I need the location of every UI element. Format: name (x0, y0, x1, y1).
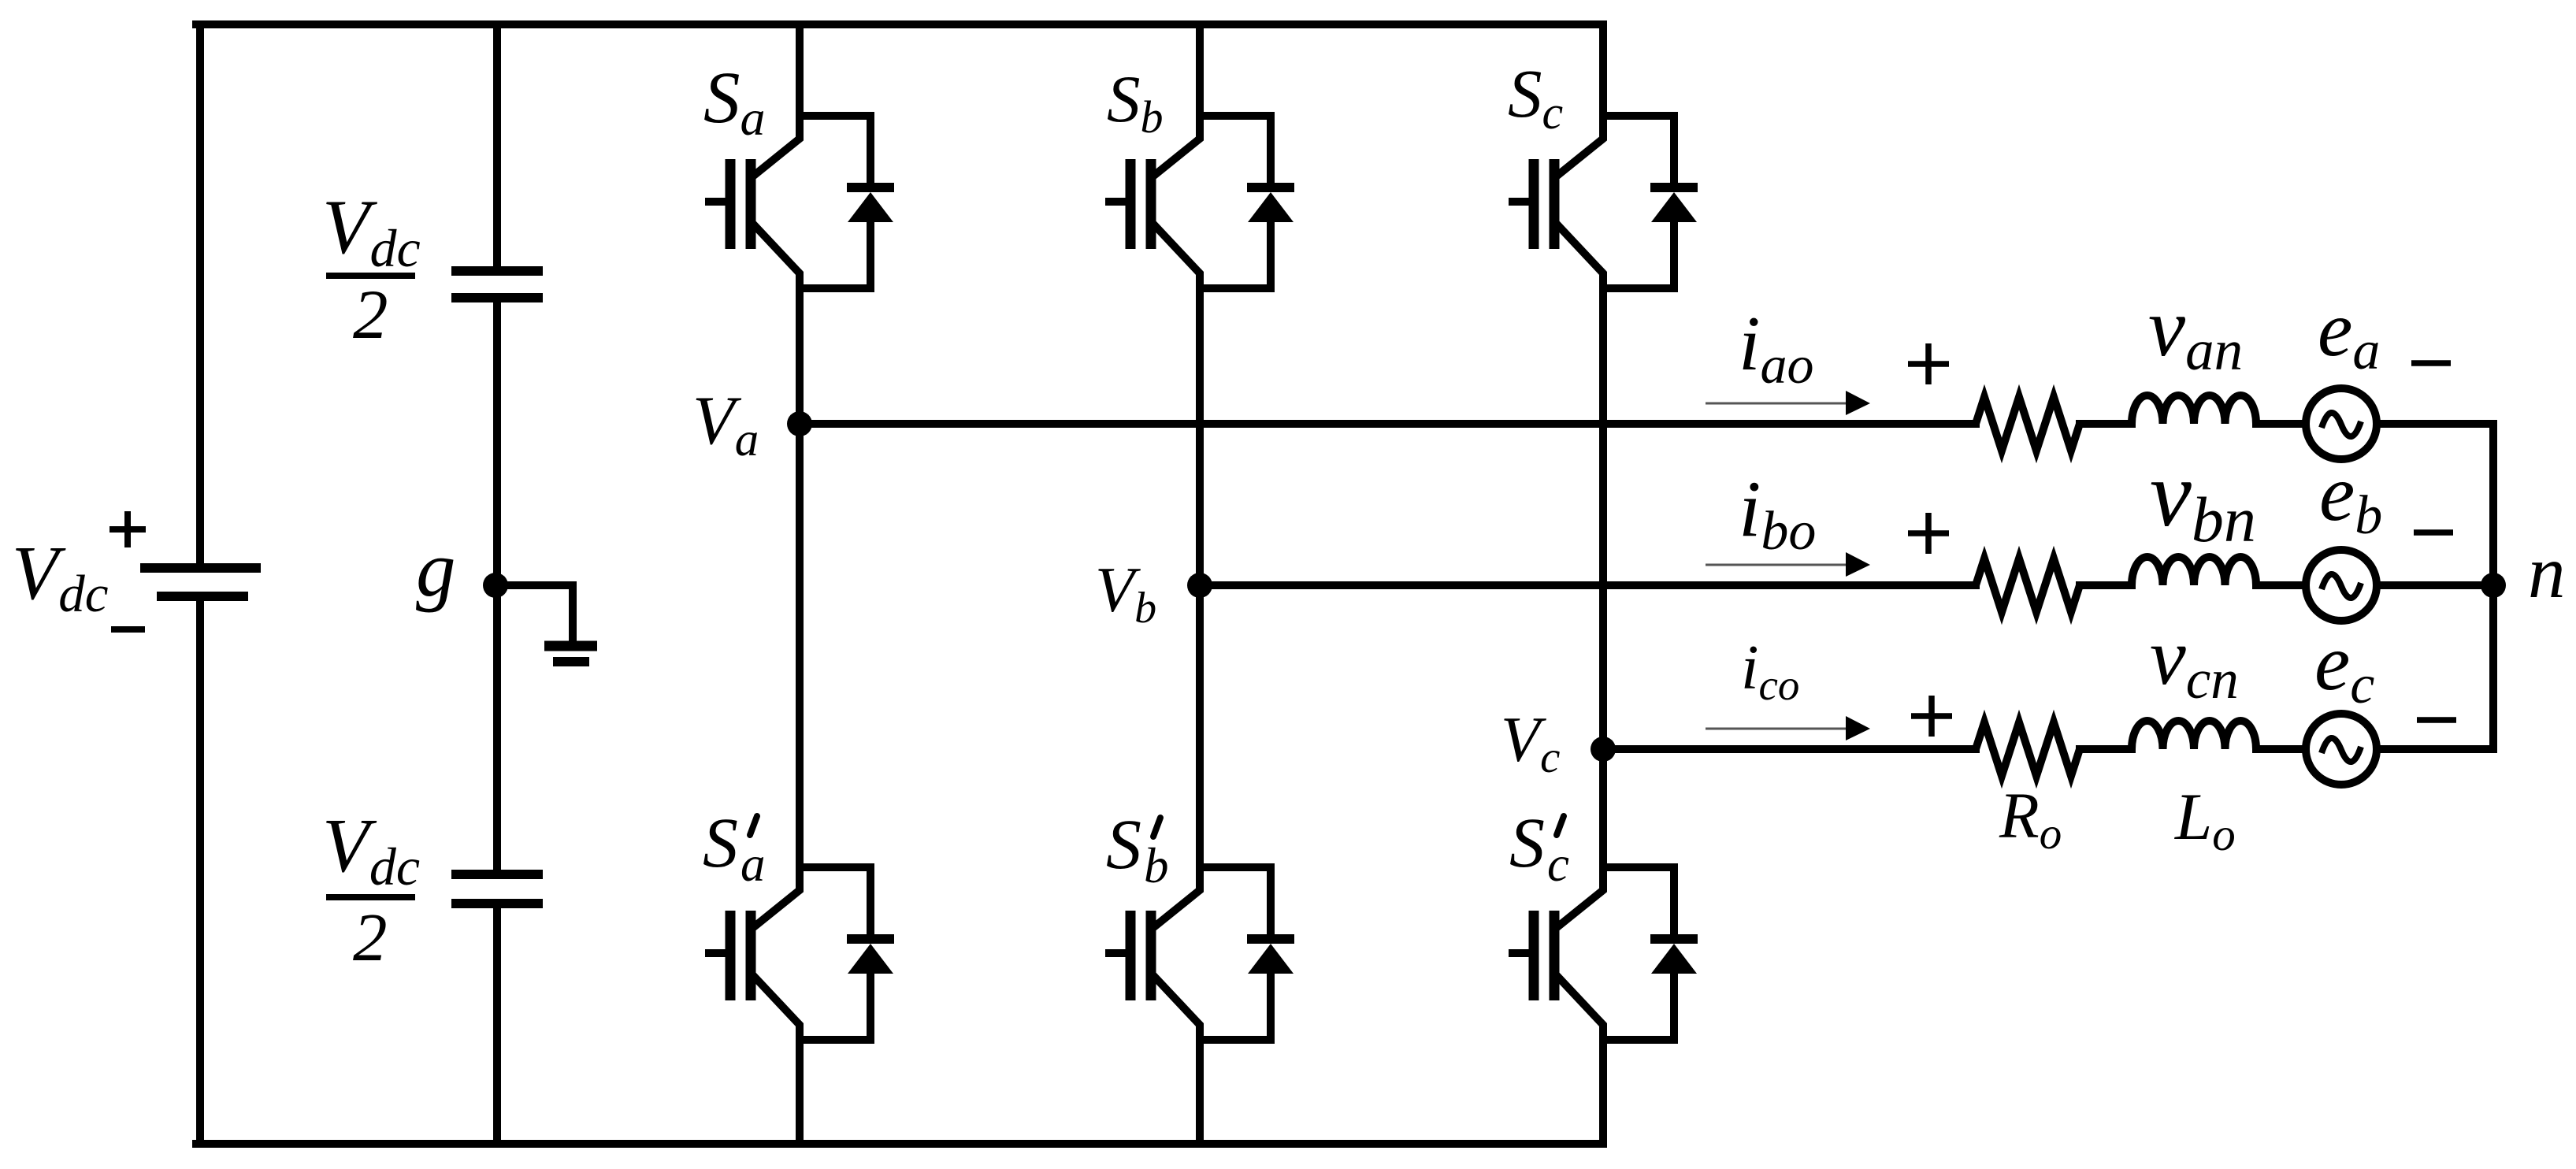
wire phase c output (1603, 745, 1976, 753)
node Vc (1591, 737, 1616, 762)
wire emitter horizontal Sb (1200, 284, 1271, 292)
wire emitter horizontal Sa (800, 284, 870, 292)
wire collector horizontal S'a (800, 863, 870, 871)
wire left rail upper (196, 24, 204, 563)
wire inductor-source a (2256, 420, 2306, 428)
source ea (2306, 388, 2377, 459)
wire leg a bottom (796, 1040, 804, 1144)
current arrow ico (1706, 716, 1870, 740)
wire bottom rail (196, 1140, 1603, 1148)
diode Da (847, 116, 894, 288)
wire emitter horizontal Sc (1603, 284, 1674, 292)
wire source-rail b (2377, 581, 2493, 589)
inductor Lo phase a (2132, 395, 2256, 424)
wire leg a lower (796, 424, 804, 867)
wire leg c lower (1599, 749, 1607, 867)
wire top rail (196, 20, 1603, 28)
diode Dc (1650, 116, 1698, 288)
wire left rail lower (196, 601, 204, 1144)
minus terminal battery (111, 626, 145, 633)
wire right rail (2377, 424, 2493, 749)
wire capacitor rail middle (493, 302, 501, 870)
wire source-rail c (2377, 745, 2493, 753)
minus sign phase a (2411, 360, 2451, 366)
ground (496, 585, 597, 662)
wire leg c top (1599, 24, 1607, 116)
resistor Ro phase b (1976, 559, 2080, 612)
current arrow ibo (1706, 552, 1870, 577)
plus sign phase c (1911, 696, 1952, 737)
wire resistor-inductor c (2080, 745, 2132, 753)
transistor Sb (1105, 112, 1200, 288)
wire emitter horizontal S'a (800, 1036, 870, 1044)
fraction bar upper (326, 273, 415, 279)
diode D'a (847, 867, 894, 1040)
plus terminal battery (109, 511, 146, 547)
transistor S'c (1509, 863, 1603, 1040)
label S'b (1106, 806, 1169, 893)
diode Db (1247, 116, 1294, 288)
transistor Sa (705, 112, 800, 288)
transistor S'b (1105, 863, 1200, 1040)
minus sign phase b (2414, 529, 2453, 536)
current arrow iao (1706, 391, 1870, 415)
wire leg c middle (1599, 288, 1607, 749)
wire leg b top (1196, 24, 1204, 116)
svg-text:n: n (2528, 530, 2566, 614)
wire collector horizontal Sc (1603, 112, 1674, 120)
wire leg b bottom (1196, 1040, 1204, 1144)
wire phase a output (800, 420, 1976, 428)
wire leg b middle (1196, 288, 1204, 585)
transistor S'a (705, 863, 800, 1040)
wire inductor-source c (2256, 745, 2306, 753)
node g (483, 573, 508, 598)
fraction bar lower (326, 894, 415, 900)
wire source-rail a (2377, 420, 2493, 428)
inductor Lo phase b (2132, 557, 2256, 585)
wire inductor-source b (2256, 581, 2306, 589)
wire emitter horizontal S'c (1603, 1036, 1674, 1044)
wire phase b output (1200, 581, 1976, 589)
source eb (2306, 550, 2377, 621)
inductor Lo phase c (2132, 721, 2256, 749)
wire emitter horizontal S'b (1200, 1036, 1271, 1044)
wire leg c bottom (1599, 1040, 1607, 1144)
wire resistor-inductor a (2080, 420, 2132, 428)
wire resistor-inductor b (2080, 581, 2132, 589)
resistor Ro phase a (1976, 397, 2080, 451)
diode D'c (1650, 867, 1698, 1040)
svg-text:2: 2 (353, 899, 388, 975)
node Va (787, 411, 812, 436)
diode D'b (1247, 867, 1294, 1040)
wire collector horizontal S'c (1603, 863, 1674, 871)
capacitor C2 (451, 874, 543, 904)
node Vb (1187, 573, 1212, 598)
label S'a (703, 804, 766, 892)
wire collector horizontal Sb (1200, 112, 1271, 120)
source ec (2306, 714, 2377, 785)
wire leg b lower (1196, 585, 1204, 867)
wire leg a top (796, 24, 804, 116)
plus sign phase b (1908, 513, 1949, 554)
svg-text:g: g (416, 525, 456, 613)
minus sign phase c (2417, 717, 2456, 723)
battery Vdc (140, 568, 261, 596)
svg-text:2: 2 (353, 276, 388, 354)
label S'c (1509, 804, 1569, 892)
plus sign phase a (1908, 343, 1949, 384)
resistor Ro phase c (1976, 722, 2080, 776)
wire capacitor rail lower (493, 907, 501, 1144)
transistor Sc (1509, 112, 1603, 288)
wire collector horizontal S'b (1200, 863, 1271, 871)
capacitor C1 (451, 271, 543, 298)
wire leg a middle (796, 288, 804, 424)
wire collector horizontal Sa (800, 112, 870, 120)
wire capacitor rail upper (493, 24, 501, 267)
node n (2481, 573, 2506, 598)
